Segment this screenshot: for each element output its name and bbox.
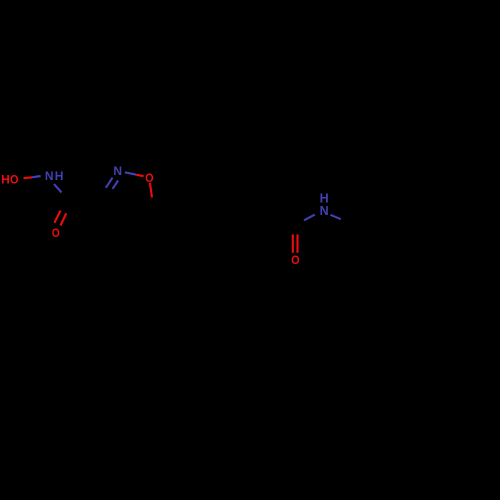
wire: chain D4-C2 (black) <box>267 209 295 227</box>
wire: chain D3-D4 (black) <box>239 209 267 226</box>
wire: C1=O1 double bond line A red part <box>54 211 60 223</box>
wire: C1=O1 double bond line B black part <box>66 207 69 213</box>
wire: ring O-C5 bond black part <box>152 198 154 210</box>
wire: bond N2-E1 black half <box>341 219 353 224</box>
wire: chain E1-E2 (black) <box>353 224 381 241</box>
wire: bond N2-E1 blue half <box>330 215 341 219</box>
wire: ring C4=C5 double bond (black) <box>125 209 154 223</box>
wire: C2=O2 double bond line B red part <box>296 234 298 253</box>
wire: ring C3-C4 bond (black) <box>102 200 124 223</box>
wire: bond N(H)-C1 black half <box>62 193 68 201</box>
wire: chain D1-D2 (black) <box>183 209 211 226</box>
wire: ring N=C3 double bond outer line black part <box>102 188 106 201</box>
svg-text:O: O <box>52 226 60 240</box>
wire: chain C5-D1 (black) <box>154 209 183 226</box>
svg-text:H: H <box>320 191 329 205</box>
wire: C2=O2 black stubs <box>292 228 294 234</box>
wire: ring N=C3 double bond outer line blue part <box>106 178 113 188</box>
wire: bond C2-N2 black half <box>295 220 304 227</box>
wire: C1=O1 double bond line A black part <box>61 199 68 211</box>
wire: ring N=C3 double bond inner line black part <box>108 189 113 197</box>
svg-text:N: N <box>320 204 329 218</box>
wire: chain D2-D3 (black) <box>211 209 239 226</box>
wire: chain E2-E3 (black) <box>381 224 409 241</box>
wire: C1=O1 double bond line B red part <box>61 213 67 225</box>
wire: C2=O2 double bond line A red part <box>292 234 294 253</box>
wire: bond C1-C3 (black) <box>68 199 103 201</box>
wire: ring N=C3 double bond inner line blue part <box>113 181 119 189</box>
wire: ring N-O bond red half <box>136 175 143 177</box>
svg-text:H: H <box>55 169 64 183</box>
wire: ring O-C5 bond red part <box>150 183 152 198</box>
wire: bond O(hydroxylamine)-N blue half <box>32 176 41 177</box>
wire: bond C2-N2 blue half <box>304 215 315 221</box>
svg-text:O: O <box>291 253 300 267</box>
svg-text:O: O <box>145 171 154 185</box>
svg-text:N: N <box>113 164 122 178</box>
svg-text:O: O <box>10 172 19 186</box>
svg-text:N: N <box>45 169 54 183</box>
wire: ring N-O bond blue half <box>125 172 136 174</box>
wire: bond N(H)-C1 blue half <box>54 184 62 192</box>
svg-text:H: H <box>1 172 10 186</box>
wire: bond O(hydroxylamine)-N red half <box>24 176 33 179</box>
